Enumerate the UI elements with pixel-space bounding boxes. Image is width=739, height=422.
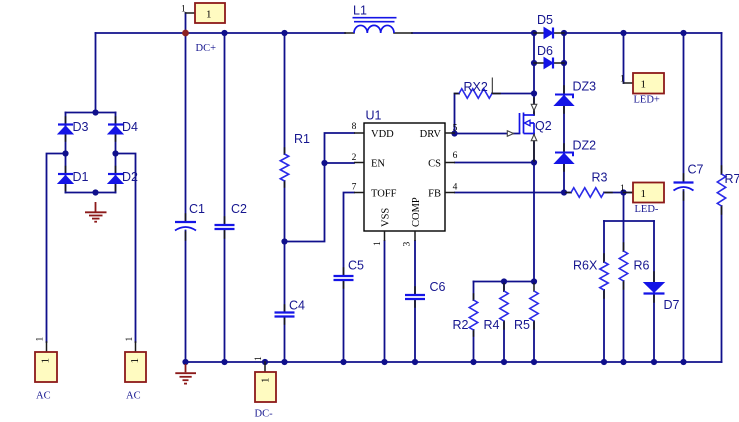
node bus VSS [381, 359, 387, 365]
svg-text:DZ2: DZ2 [573, 139, 597, 153]
pin 8 VDD [354, 132, 364, 134]
diode D7 [644, 283, 665, 294]
resistor R1 [280, 154, 288, 181]
wire D5 pins [534, 32, 564, 34]
svg-text:LED+: LED+ [634, 95, 660, 106]
wire C2 bottom to bus [224, 230, 226, 363]
wire EN node down to R1 bottom [285, 163, 325, 242]
svg-text:C6: C6 [430, 280, 446, 294]
resistor RX2 [459, 89, 492, 99]
wire drain pin column [533, 94, 535, 116]
capacitor C4 [275, 313, 295, 317]
svg-text:D5: D5 [537, 13, 553, 27]
node bus D7 [651, 359, 657, 365]
wire R7 bottom to bus [721, 206, 723, 362]
svg-text:R6: R6 [634, 259, 650, 273]
connector DC- [254, 356, 276, 420]
wire COMP down to C6 [414, 241, 416, 295]
op-amp U1 [352, 122, 458, 247]
wire top rail bridge to inductor [96, 32, 346, 34]
node C7 top [680, 30, 686, 36]
ground main [175, 364, 196, 384]
wire R6 bottom to bus [623, 281, 625, 362]
wire R1 pins [284, 148, 286, 187]
svg-text:1: 1 [181, 5, 186, 15]
svg-text:DZ3: DZ3 [573, 80, 597, 94]
node RX2 right [531, 90, 537, 96]
diode D5 [544, 28, 553, 39]
svg-text:R5: R5 [514, 318, 530, 332]
capacitor C1 [175, 221, 196, 223]
wire C2 pins [224, 217, 226, 238]
wire RX2 pins [455, 93, 501, 95]
inductor L1 [353, 18, 397, 33]
wire bridge top horizontal [66, 112, 116, 114]
svg-text:AC: AC [36, 391, 51, 402]
node bus C5 [340, 359, 346, 365]
wire RX2 right to drain column [492, 93, 534, 95]
svg-text:CS: CS [428, 159, 441, 170]
wire R5 pins [533, 284, 535, 330]
transistor Q2 [520, 113, 535, 134]
diode D4 [108, 125, 123, 135]
svg-text:1: 1 [260, 378, 272, 384]
svg-text:U1: U1 [366, 109, 382, 123]
node bridge top [92, 109, 98, 115]
wire C5 pins [343, 268, 345, 288]
node DC+ junction (red) [182, 30, 189, 37]
wire EN node to EN pin [325, 162, 355, 164]
wire R5 bottom to bus [533, 322, 535, 362]
wire bridge right branch to AC2 [116, 154, 136, 343]
wire top rail to R1 [284, 33, 286, 154]
wire D7 drop [653, 221, 655, 362]
resistor R4 [500, 291, 508, 321]
wire right edge down to R7 [721, 33, 723, 174]
wire C5 bottom to bus [343, 281, 345, 363]
svg-text:EN: EN [371, 159, 385, 170]
node bus DC- [262, 359, 268, 365]
wire DC+ pin [186, 12, 196, 14]
node bridge right [112, 150, 118, 156]
wire RX2 text cursor [491, 78, 493, 95]
wire R2 bottom to bus [473, 330, 475, 362]
diode D6 [544, 58, 553, 69]
wire VSS down to bus [384, 241, 386, 362]
wire DRV node up to RX2 left [455, 94, 460, 134]
wire bridge left branch to AC1 [47, 154, 66, 343]
wire R1 bottom to C4 [284, 181, 286, 312]
resistor R5 [530, 291, 538, 321]
svg-text:1: 1 [40, 358, 52, 364]
svg-text:LED-: LED- [635, 204, 659, 215]
diode D1 [58, 174, 73, 184]
wire DZ2 pins [563, 144, 565, 171]
svg-text:D7: D7 [664, 298, 680, 312]
node CS source [531, 159, 537, 165]
svg-text:RX2: RX2 [464, 80, 488, 94]
wire CS to Q2 source column [455, 162, 534, 164]
svg-text:R2: R2 [453, 318, 469, 332]
svg-text:3: 3 [403, 242, 413, 247]
wire DC+ down to C1 [185, 13, 187, 222]
svg-text:5: 5 [453, 124, 458, 134]
wire bridge bottom horizontal [66, 192, 116, 194]
svg-text:7: 7 [352, 183, 357, 193]
svg-text:8: 8 [352, 122, 357, 132]
connector DC+ [181, 3, 225, 54]
svg-text:C7: C7 [688, 163, 704, 177]
wire L1 pin right [394, 32, 412, 34]
wire C4 bottom to bus [284, 317, 286, 362]
svg-text:1: 1 [254, 356, 264, 361]
svg-text:C1: C1 [189, 202, 205, 216]
wire LED+ pin [624, 82, 634, 84]
svg-text:COMP: COMP [411, 197, 422, 227]
svg-text:DRV: DRV [420, 129, 442, 140]
svg-text:DC+: DC+ [196, 43, 217, 54]
wire Q2 source pin black [533, 135, 535, 162]
diode D2 [108, 174, 123, 184]
wire Q2 drain pin black [533, 98, 535, 114]
wire DC- pin [264, 362, 266, 372]
node D6 right [561, 60, 567, 66]
wire R7 pins [721, 166, 723, 214]
node C2 top [221, 30, 227, 36]
node bus R4 [501, 359, 507, 365]
svg-text:4: 4 [453, 183, 458, 193]
node bus C4 [281, 359, 287, 365]
connector LED- [620, 183, 664, 216]
svg-text:D6: D6 [537, 44, 553, 58]
svg-text:R3: R3 [592, 171, 608, 185]
wire C2 top [224, 33, 226, 225]
node D5 left [531, 30, 537, 36]
wire D3 pins [65, 117, 67, 141]
node bus ground corner [182, 359, 188, 365]
svg-text:R4: R4 [484, 318, 500, 332]
svg-text:1: 1 [641, 188, 647, 200]
wire C1 pins [185, 214, 187, 240]
wire R4 top drop [503, 282, 505, 292]
node bridge left [62, 150, 68, 156]
wire C1 bottom to bus [185, 231, 187, 363]
node EN [321, 160, 327, 166]
svg-text:D3: D3 [73, 120, 89, 134]
Q2 gate arrow [507, 131, 513, 137]
wire TOFF to C5 top [344, 193, 355, 276]
pin 1 VSS [384, 231, 386, 241]
node bus R6X [601, 359, 607, 365]
svg-text:1: 1 [206, 9, 212, 21]
node D6 left [531, 60, 537, 66]
svg-text:1: 1 [620, 75, 625, 85]
wire DRV to Q2 gate [455, 133, 520, 135]
Q2 drain arrow [531, 104, 537, 110]
ground bridge [85, 202, 107, 222]
node DRV [451, 130, 457, 136]
wire C7 pins [683, 174, 685, 200]
node bus R5 [531, 359, 537, 365]
wire C6 pins [414, 287, 416, 307]
svg-text:Q2: Q2 [535, 119, 552, 133]
wire R6X bottom to bus [603, 290, 605, 362]
zener DZ2 [555, 153, 574, 164]
svg-text:R1: R1 [294, 132, 310, 146]
wire D4 pins [115, 117, 117, 141]
wire LED+ feed [623, 33, 625, 83]
svg-text:D2: D2 [122, 170, 138, 184]
wire R6 pins [623, 243, 625, 289]
svg-text:1: 1 [129, 358, 141, 364]
wire C6 bottom to bus [414, 300, 416, 363]
svg-text:VDD: VDD [371, 129, 394, 140]
wire R3 pins [566, 192, 612, 194]
node bridge bottom [92, 189, 98, 195]
node R1 bottom [281, 238, 287, 244]
pin 2 EN [354, 162, 364, 164]
svg-text:D1: D1 [73, 170, 89, 184]
wire D6 pins [534, 62, 564, 64]
wire bottom bus [186, 361, 722, 363]
wire Q2 source down to R5 top [533, 134, 535, 282]
connector AC1 [35, 337, 57, 402]
wire inductor to D5 [412, 32, 534, 34]
node bus R2 [470, 359, 476, 365]
wire R4 bottom to bus [503, 322, 505, 362]
svg-text:TOFF: TOFF [371, 189, 397, 200]
svg-text:D4: D4 [122, 120, 138, 134]
wire R2 R4 R5 top rail [474, 281, 535, 283]
connector LED+ [620, 73, 664, 106]
node R5 top [531, 278, 537, 284]
capacitor C6 [405, 295, 425, 299]
svg-text:C5: C5 [348, 259, 364, 273]
pin 4 FB [445, 192, 455, 194]
capacitor C5 [334, 276, 354, 280]
svg-text:R6X: R6X [573, 259, 598, 273]
wire VDD to EN node [325, 133, 355, 163]
svg-text:L1: L1 [353, 4, 367, 18]
wire R6X pins [603, 254, 605, 298]
resistor R2 [469, 300, 477, 330]
svg-text:R7: R7 [725, 172, 739, 186]
wire C4 pins [284, 305, 286, 324]
wire LED- node down to T split [623, 193, 625, 252]
wire bridge right vertical [115, 113, 117, 193]
node bus C2 [221, 359, 227, 365]
wire R2 top drop [473, 282, 475, 301]
wire FB to R3 left [455, 192, 571, 194]
node bus C7 [680, 359, 686, 365]
svg-text:C2: C2 [231, 202, 247, 216]
svg-text:FB: FB [428, 189, 441, 200]
pin 7 TOFF [354, 192, 364, 194]
wire D2 pins [115, 167, 117, 191]
wire R6X top drop [603, 221, 605, 262]
wire LED- pin [624, 192, 634, 194]
node LED- [620, 189, 626, 195]
resistor R7 [717, 174, 725, 206]
node LED+ top [620, 30, 626, 36]
zener DZ3 [555, 95, 574, 106]
wire D1 pins [65, 167, 67, 191]
wire C7 bottom to bus [683, 190, 685, 362]
capacitor C2 [215, 225, 235, 229]
connector AC2 [125, 337, 146, 402]
Q2 source arrow [531, 135, 537, 141]
node FB DZ2 [561, 189, 567, 195]
node bus R6 [620, 359, 626, 365]
svg-text:1: 1 [125, 337, 135, 342]
svg-text:1: 1 [620, 184, 625, 194]
node R1 top [281, 30, 287, 36]
wire R4 pins [503, 284, 505, 330]
wire L1 pin left [345, 32, 354, 34]
wire D5 right to top-right corner [564, 32, 722, 34]
wire D5 D6 left column [533, 33, 535, 94]
svg-text:VSS: VSS [381, 208, 392, 227]
svg-text:AC: AC [126, 391, 141, 402]
wire DZ3 pins [563, 86, 565, 113]
node R4 top [501, 278, 507, 284]
svg-text:6: 6 [453, 151, 458, 161]
capacitor C7 [674, 181, 694, 183]
resistor R6 [619, 251, 627, 281]
wire D7 pins [653, 272, 655, 302]
pin 6 CS [445, 162, 455, 164]
diode D3 [58, 125, 73, 135]
resistor R6X [600, 262, 608, 290]
wire R2 pins [473, 294, 475, 336]
node bus C6 [412, 359, 418, 365]
pin 5 DRV [445, 132, 455, 134]
wire T split horizontal [604, 220, 654, 222]
wire C7 top [683, 33, 685, 182]
svg-text:1: 1 [373, 241, 383, 246]
wire bridge left vertical [65, 113, 67, 193]
svg-text:1: 1 [641, 79, 647, 91]
svg-text:C4: C4 [289, 299, 305, 313]
wire AC2 pin [135, 342, 137, 352]
wire AC1 pin [46, 342, 48, 352]
svg-text:DC-: DC- [255, 409, 274, 420]
wire R3 right to LED- node [604, 192, 633, 194]
wire bridge feed vertical [95, 33, 97, 113]
resistor R3 [571, 188, 604, 198]
node D5 right [561, 30, 567, 36]
svg-text:2: 2 [352, 153, 357, 163]
pin 3 COMP [414, 231, 416, 241]
wire D6 right column through DZ3 DZ2 [563, 33, 565, 193]
svg-text:1: 1 [36, 337, 46, 342]
